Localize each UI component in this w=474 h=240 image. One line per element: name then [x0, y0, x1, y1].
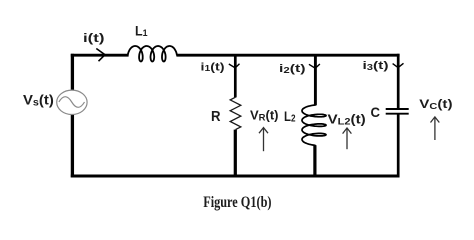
arrowhead: i1(t) down arrow on resistor branch — [229, 64, 240, 68]
resistor R zigzag — [230, 97, 241, 129]
wire: L2 branch upper lead — [314, 55, 317, 105]
wire: top bus left segment — [71, 54, 129, 57]
wire: right vertical upper (capacitor top lead) — [397, 54, 400, 108]
inductor L1 coil — [128, 46, 177, 62]
arrowhead: i(t) current arrow on top bus — [96, 49, 105, 62]
svg-text:Vs(t): Vs(t) — [23, 93, 54, 109]
svg-text:C: C — [371, 105, 381, 120]
svg-text:i2(t): i2(t) — [279, 63, 306, 75]
arrowhead: i3(t) down arrow on capacitor branch — [393, 63, 404, 67]
inductor L2 coil — [302, 105, 326, 145]
capacitor C top plate — [386, 108, 409, 110]
wire: left vertical upper (source top lead) — [71, 54, 74, 91]
wire: resistor branch upper lead — [234, 55, 237, 97]
wire: resistor branch lower lead — [234, 130, 237, 177]
svg-text:Figure Q1(b): Figure Q1(b) — [203, 194, 271, 211]
wire: left vertical lower (source bottom lead) — [71, 114, 74, 177]
wire: L2 branch lower lead — [313, 145, 316, 176]
svg-text:i(t): i(t) — [83, 31, 105, 45]
wire: top bus right segment — [176, 54, 399, 57]
arrow: VR(t) polarity up arrow — [259, 128, 268, 152]
svg-text:R: R — [211, 109, 221, 125]
arrow: VC(t) polarity up arrow — [431, 117, 440, 140]
arrow: VL2(t) polarity up arrow — [343, 128, 352, 149]
wire: bottom bus — [71, 175, 400, 178]
svg-text:i1(t): i1(t) — [201, 61, 225, 73]
capacitor C bottom plate — [386, 113, 409, 115]
svg-text:i3(t): i3(t) — [363, 60, 389, 72]
arrowhead: i2(t) down arrow on L2 branch — [309, 64, 320, 68]
wire: right vertical lower (capacitor bottom lead) — [397, 114, 400, 177]
voltage source sine wave — [59, 97, 85, 108]
voltage source U1 circle — [57, 90, 87, 114]
